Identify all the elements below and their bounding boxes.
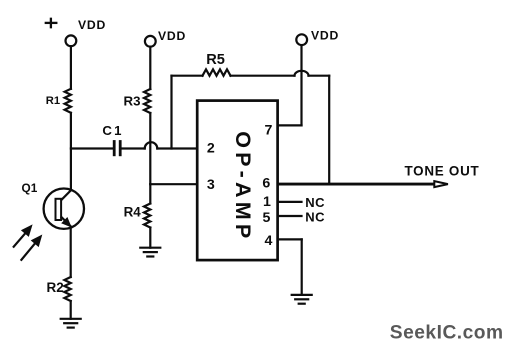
svg-text:2: 2 <box>207 141 215 157</box>
wire R5 to hop <box>231 75 295 77</box>
ground (below R4) <box>140 248 160 257</box>
wire VDD2 to R3 <box>149 47 151 89</box>
output arrowhead TONE OUT <box>434 181 448 187</box>
wire R5 left horizontal <box>172 75 203 77</box>
wire VDD3 rail down to pin7 corner <box>300 45 302 125</box>
svg-text:NC: NC <box>305 210 325 225</box>
wire op-amp pin 6 output line <box>278 183 435 186</box>
wire pin3 node to R4 <box>149 184 151 203</box>
wire R4 to ground <box>149 228 151 248</box>
wire C1 right plate to hop <box>121 147 145 149</box>
svg-text:R2: R2 <box>46 280 63 295</box>
ground (pin 4) <box>292 295 312 304</box>
power terminal VDD1 <box>66 35 77 46</box>
resistor R4 <box>144 204 150 228</box>
plus sign <box>46 19 57 27</box>
svg-text:OP-AMP: OP-AMP <box>231 131 255 242</box>
svg-text:SeekIC.com: SeekIC.com <box>390 322 504 343</box>
transistor Q1 body <box>44 189 84 229</box>
svg-text:4: 4 <box>264 233 272 249</box>
svg-text:VDD: VDD <box>158 29 186 43</box>
power terminal VDD2 <box>145 36 156 47</box>
wire R5 left branch (up from pin2 wire) <box>170 76 172 149</box>
svg-text:1: 1 <box>263 194 271 210</box>
power terminal VDD3 <box>296 34 307 45</box>
svg-text:5: 5 <box>263 210 271 226</box>
svg-text:NC: NC <box>305 195 325 210</box>
wire node to C1 left plate <box>71 147 114 149</box>
resistor R1 <box>65 89 71 113</box>
wire op-amp pin 5 stub <box>278 215 302 217</box>
light arrow 2 <box>21 243 35 260</box>
transistor Q1 collector line <box>62 190 72 200</box>
ground (below R2) <box>61 319 81 328</box>
svg-text:R5: R5 <box>206 52 225 68</box>
wire Q1 emitter to R2 <box>70 227 72 277</box>
svg-text:3: 3 <box>207 177 215 193</box>
transistor Q1 base bar <box>56 199 62 220</box>
svg-text:TONE OUT: TONE OUT <box>405 163 480 178</box>
svg-text:C1: C1 <box>102 123 123 138</box>
wire hop over VDD3 rail <box>295 71 309 76</box>
wire corner to op-amp pin 7 <box>278 124 302 126</box>
svg-text:Q1: Q1 <box>22 181 38 195</box>
svg-text:R4: R4 <box>124 205 142 220</box>
resistor R2 <box>64 277 70 301</box>
light arrow 1 <box>14 233 26 247</box>
wire op-amp pin 1 stub <box>278 201 302 203</box>
wire R1 to Q1 collector (C1 tap at y=148.5) <box>70 113 72 190</box>
wire R2 to ground <box>70 301 72 319</box>
svg-text:VDD: VDD <box>311 29 339 43</box>
svg-text:R1: R1 <box>46 95 60 107</box>
wire hop to right corner <box>309 75 330 77</box>
wire R5 right branch down to output node <box>328 76 330 184</box>
wire pin3 node to op-amp pin 3 <box>150 183 197 185</box>
svg-text:6: 6 <box>262 176 270 192</box>
wire pin 4 down to ground <box>301 239 303 295</box>
transistor Q1 emitter line <box>62 217 71 226</box>
transistor Q1 emitter arrowhead <box>61 217 71 228</box>
svg-text:VDD: VDD <box>78 18 106 32</box>
wire hop over middle rail <box>145 142 158 148</box>
op-amp U1 body <box>197 101 277 261</box>
capacitor C1 <box>114 142 120 155</box>
svg-text:7: 7 <box>265 122 273 138</box>
resistor R3 <box>144 89 150 113</box>
wire VDD1 to R1 <box>70 46 72 89</box>
wire R3 through hop to pin3 node <box>149 113 151 184</box>
resistor R5 <box>203 69 231 75</box>
svg-text:R3: R3 <box>124 94 141 109</box>
wire hop to op-amp pin 2 <box>157 147 197 149</box>
wire op-amp pin 4 stub <box>278 238 302 240</box>
